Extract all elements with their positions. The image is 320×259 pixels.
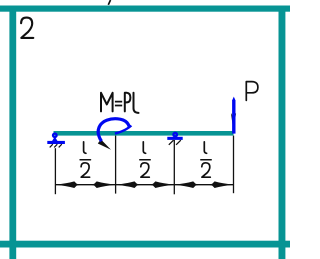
dimension arrow seg1 right bbox=[91, 181, 116, 188]
label P bbox=[246, 82, 258, 101]
frame right border bbox=[279, 6, 286, 259]
problem number 2 bbox=[21, 18, 33, 38]
extension line at middle support bbox=[173, 140, 175, 194]
fraction l/2 segment 3 bbox=[201, 142, 211, 177]
moment arrowhead bbox=[98, 139, 111, 149]
dimension arrow seg2 left bbox=[116, 181, 141, 188]
stray tick above top border bbox=[108, 0, 110, 5]
extension line at beam right end bbox=[233, 136, 235, 194]
frame top border bbox=[0, 6, 290, 12]
middle support base bar bbox=[167, 137, 182, 140]
fraction l/2 segment 2 bbox=[140, 142, 150, 177]
dimension arrow seg3 right bbox=[208, 181, 233, 188]
force P shaft bbox=[232, 97, 235, 101]
label M=Pl : equals sign bbox=[115, 102, 122, 106]
left support hinge circle bbox=[53, 134, 57, 138]
force P arrowhead bbox=[231, 113, 236, 132]
fraction l/2 segment 1 bbox=[80, 142, 90, 177]
frame bottom border bbox=[0, 241, 290, 248]
frame left border bbox=[9, 6, 16, 259]
dimension arrow seg3 left bbox=[174, 181, 199, 188]
left support base bar bbox=[47, 141, 65, 144]
beam bbox=[54, 131, 234, 136]
label M=Pl : letter l bbox=[134, 93, 139, 113]
label M=Pl : letter P bbox=[125, 93, 131, 112]
dimension arrow seg1 left bbox=[56, 181, 81, 188]
extension line at left support bbox=[54, 148, 56, 194]
dimension line bbox=[55, 184, 233, 186]
middle support hinge circle bbox=[173, 133, 177, 137]
dimension arrow seg2 right bbox=[149, 181, 174, 188]
middle support hatching bbox=[169, 140, 181, 145]
moment beak (tapered attach to beam) bbox=[115, 125, 133, 135]
left support legs bbox=[52, 137, 58, 142]
moment arc bbox=[98, 119, 129, 141]
left support hatching bbox=[50, 144, 62, 147]
extension line at moment point bbox=[115, 136, 117, 194]
label M=Pl : letter M bbox=[101, 93, 113, 112]
